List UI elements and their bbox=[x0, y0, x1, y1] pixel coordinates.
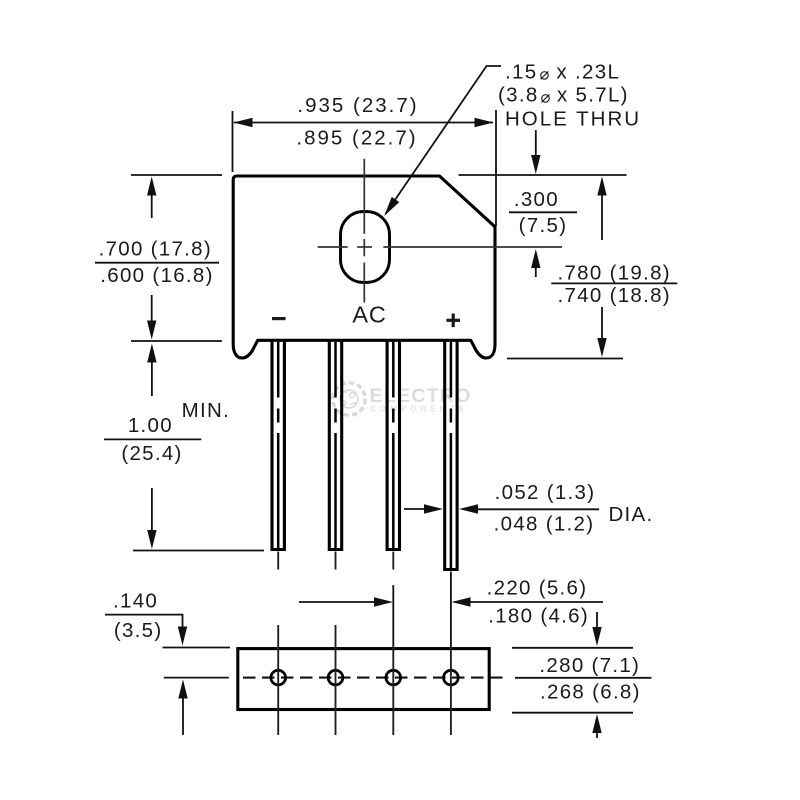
arrow .140 down bbox=[178, 627, 187, 646]
ext line body top right bbox=[459, 174, 627, 176]
svg-text:(25.4): (25.4) bbox=[121, 442, 182, 465]
ext line bottom-view top left bbox=[163, 647, 231, 649]
bottom view dashed centerline bbox=[243, 677, 507, 679]
lead pin 1 bbox=[272, 342, 284, 550]
svg-text:DIA.: DIA. bbox=[608, 503, 653, 526]
dim line spacing left bbox=[299, 601, 375, 603]
hole lead 3 bottom view bbox=[386, 670, 401, 685]
dim line .280 lower bbox=[596, 732, 598, 738]
watermark logo gear bbox=[333, 383, 366, 416]
minus polarity mark bbox=[272, 317, 286, 320]
mounting hole (obround) bbox=[341, 212, 390, 283]
arrow 1.00 bottom bbox=[147, 530, 156, 549]
fraction bar .780/.740 bbox=[551, 282, 677, 284]
ext line bottom-view centerline left bbox=[164, 677, 229, 679]
arrow spacing right-pointing bbox=[374, 597, 393, 606]
ext line width right bbox=[495, 110, 497, 226]
hole vertical centerline bbox=[363, 159, 365, 234]
dim line .280 upper bbox=[596, 612, 598, 628]
svg-text:.780 (19.8): .780 (19.8) bbox=[557, 261, 670, 284]
fraction bar+leader .140 bbox=[105, 615, 183, 628]
svg-text:.140: .140 bbox=[113, 589, 158, 612]
svg-text:.895 (22.7): .895 (22.7) bbox=[296, 126, 417, 149]
svg-text:⌀: ⌀ bbox=[541, 89, 551, 107]
svg-text:.220 (5.6): .220 (5.6) bbox=[487, 576, 588, 599]
svg-text:.268 (6.8): .268 (6.8) bbox=[540, 680, 641, 703]
plus polarity mark bbox=[446, 319, 460, 322]
hole horizontal centerline bbox=[318, 246, 348, 248]
lead 1 centerline tail bbox=[277, 552, 279, 570]
ext line feet bottom right bbox=[507, 358, 623, 360]
arrow .780 top bbox=[597, 177, 606, 196]
hole lead 4 bottom view bbox=[444, 670, 459, 685]
ext line bottom-view top right bbox=[512, 647, 633, 649]
dim line .700 upper bbox=[151, 195, 153, 218]
svg-text:x .23L: x .23L bbox=[557, 61, 621, 84]
svg-text:AC: AC bbox=[352, 302, 386, 328]
svg-text:1.00: 1.00 bbox=[128, 414, 173, 437]
dim line 1.00 lower bbox=[151, 488, 153, 531]
svg-text:(7.5): (7.5) bbox=[519, 214, 568, 237]
arrow dia right-pointing bbox=[424, 504, 443, 513]
ext line bottom-view bottom right bbox=[512, 712, 633, 714]
bottom view outline bbox=[238, 649, 489, 710]
svg-text:.180 (4.6): .180 (4.6) bbox=[488, 604, 589, 627]
dim line dia left bbox=[404, 508, 425, 510]
svg-text:.935 (23.7): .935 (23.7) bbox=[297, 94, 418, 117]
arrow .700 top bbox=[147, 177, 156, 196]
dim+fraction line dia bbox=[478, 508, 599, 510]
dim line .780 lower bbox=[601, 307, 603, 339]
svg-text:MIN.: MIN. bbox=[182, 399, 230, 422]
dim line .300 lower bbox=[535, 268, 537, 277]
svg-text:.300: .300 bbox=[514, 188, 559, 211]
arrow dia left-pointing bbox=[459, 504, 478, 513]
lead 3 centerline tail bbox=[392, 552, 394, 570]
svg-text:.15: .15 bbox=[505, 61, 537, 84]
dim line .140 lower bbox=[182, 699, 184, 736]
arrow .280 down bbox=[592, 627, 601, 646]
ext line width left bbox=[232, 111, 234, 172]
leader arrowhead bbox=[384, 197, 399, 216]
svg-text:(3.5): (3.5) bbox=[114, 619, 163, 642]
fraction bar .300/(7.5) bbox=[509, 211, 577, 213]
fraction bar 1.00/(25.4) bbox=[104, 438, 201, 440]
leader line hole callout bbox=[386, 66, 502, 214]
arrow .700 bottom bbox=[147, 321, 156, 340]
arrow .280 up bbox=[592, 714, 601, 733]
arrow .300 down bbox=[531, 155, 540, 174]
arrow .140 up bbox=[178, 680, 187, 699]
lead 2 centerline tail bbox=[335, 552, 337, 570]
svg-text:HOLE THRU: HOLE THRU bbox=[505, 107, 641, 130]
hole lead 1 bottom view bbox=[271, 670, 286, 685]
arrow .780 bottom bbox=[597, 338, 606, 357]
arrow width right bbox=[475, 118, 494, 127]
svg-text:x 5.7L): x 5.7L) bbox=[557, 84, 629, 107]
lead 3 extension line bbox=[392, 585, 394, 647]
arrow 1.00 top bbox=[147, 344, 156, 363]
svg-text:.048 (1.2): .048 (1.2) bbox=[494, 512, 595, 535]
bridge rectifier body outline bbox=[233, 176, 495, 358]
hole lead 2 bottom view bbox=[328, 670, 343, 685]
fraction bar .700/.600 bbox=[95, 262, 219, 264]
ext line body bottom left bbox=[131, 340, 222, 342]
svg-text:.700 (17.8): .700 (17.8) bbox=[99, 237, 212, 260]
fraction bar .280/.268 bbox=[515, 677, 651, 679]
dim line .700 lower bbox=[151, 295, 153, 322]
arrow width left bbox=[234, 118, 253, 127]
svg-text:(3.8: (3.8 bbox=[498, 84, 539, 107]
lead pin 2 bbox=[329, 342, 341, 550]
svg-text:.600 (16.8): .600 (16.8) bbox=[100, 264, 213, 287]
ext line lead ends bbox=[133, 550, 264, 552]
arrow spacing left-pointing bbox=[452, 597, 471, 606]
dim line width bbox=[234, 122, 493, 124]
svg-text:.052 (1.3): .052 (1.3) bbox=[495, 481, 596, 504]
lead 2 bottom-view centerline bbox=[335, 625, 337, 735]
lead 4 extension line bbox=[450, 572, 452, 648]
arrow .300 up bbox=[531, 249, 540, 268]
dim line 1.00 upper bbox=[151, 362, 153, 396]
lead pin 4 bbox=[445, 342, 457, 570]
lead pin 3 bbox=[387, 342, 399, 550]
dim+fraction line spacing bbox=[470, 601, 603, 603]
dim line .780 upper bbox=[601, 195, 603, 240]
svg-text:.740 (18.8): .740 (18.8) bbox=[557, 284, 670, 307]
lead 1 bottom-view centerline bbox=[277, 625, 279, 735]
svg-text:.280 (7.1): .280 (7.1) bbox=[539, 654, 640, 677]
lead 3 bottom-view centerline bbox=[392, 647, 394, 735]
ext line body top left bbox=[131, 174, 222, 176]
svg-text:⌀: ⌀ bbox=[540, 66, 550, 84]
dim line .300 upper bbox=[535, 130, 537, 156]
lead 4 bottom-view centerline bbox=[450, 647, 452, 735]
